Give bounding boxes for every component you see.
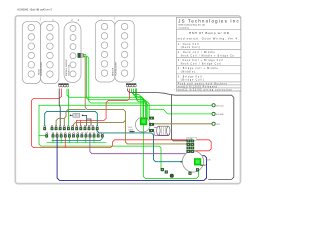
- ground lug A: [161, 168, 164, 171]
- output connector VOL-OD: [212, 104, 215, 107]
- wire green neck hot to switch: [67, 89, 69, 126]
- svg-text:VOL-OD: VOL-OD: [216, 105, 224, 107]
- wire olive middle pickup main run: [83, 56, 187, 144]
- title block note row: [176, 82, 241, 85]
- pickup: middle single coil body: [64, 22, 81, 83]
- wire black neck: [59, 89, 60, 126]
- svg-text:500K: 500K: [206, 159, 211, 161]
- svg-text:5: Bridge Full: 5: Bridge Full: [178, 75, 202, 78]
- output connector OUT: [212, 122, 215, 125]
- svg-text:1: Neck Full: 1: Neck Full: [178, 44, 199, 46]
- wire green bridge 3: [136, 89, 147, 119]
- wire green bridge 1: [132, 89, 141, 119]
- wire red neck hot: [31, 89, 211, 151]
- wire navy switch to output jack loop: [57, 138, 206, 181]
- svg-text:HSH50#2 - Bob HB no#3 ver 3: HSH50#2 - Bob HB no#3 ver 3: [17, 8, 52, 12]
- switch position row 2: [176, 50, 241, 58]
- svg-text:mod11 9/20/05 wiring correctio: mod11 9/20/05 wiring correction: [178, 89, 233, 92]
- wire olive volume wiper to OUT connector: [154, 123, 212, 125]
- svg-text:5930 Goddard Wey Ste 102: 5930 Goddard Wey Ste 102: [178, 24, 206, 27]
- svg-text:Neck Coil / Middle + Bridge Co: Neck Coil / Middle + Bridge Co: [181, 54, 235, 57]
- title block revision row 1: [176, 85, 241, 88]
- wire black branch down to tone lug: [171, 95, 186, 141]
- wire green main bus to VOL-OD output: [39, 104, 212, 106]
- wire green bridge 4: [137, 89, 150, 118]
- column tick 4: [114, 16, 116, 20]
- potentiometer TONE: [182, 151, 203, 172]
- switch position row 5: [176, 74, 241, 82]
- wire green left ground loop: [39, 105, 161, 168]
- svg-text:(Bridge Coil): (Bridge Coil): [181, 79, 204, 82]
- wire green bridge 2: [134, 89, 144, 119]
- wire green loop branch to switch lug: [39, 135, 47, 137]
- wire green middle 1: [83, 54, 146, 118]
- wire red switch lug to hot bus: [64, 138, 66, 148]
- ground lug on tone casing: [189, 172, 192, 175]
- middle pickup connector: [78, 53, 83, 57]
- output connector VOL-HB: [212, 112, 215, 115]
- wire black resistor jumper 2: [87, 119, 91, 126]
- svg-text:NECK: NECK: [38, 68, 40, 75]
- title block outer box: [176, 17, 241, 91]
- ground lug B: [165, 171, 168, 174]
- column tick 1: [40, 17, 42, 21]
- volume pot lug 2: [149, 123, 154, 126]
- svg-text:VOL-HB: VOL-HB: [216, 114, 224, 116]
- teal tone pot terminal dot: [180, 161, 182, 163]
- switch position row 1: [176, 41, 241, 49]
- middle single coil pole pieces: [70, 25, 76, 77]
- page background: [0, 0, 255, 197]
- wire black resistor to switch lugs: [83, 115, 87, 126]
- svg-text:500K: 500K: [128, 129, 133, 131]
- wire green middle 2: [83, 57, 148, 119]
- svg-text:BRIDGE: BRIDGE: [113, 67, 115, 76]
- svg-text:3: Neck Full + Bridge Full: 3: Neck Full + Bridge Full: [178, 59, 223, 62]
- svg-text:4: Bridge coil + Middle: 4: Bridge coil + Middle: [178, 67, 219, 70]
- 5-way switch bottom lug row: [45, 133, 103, 138]
- wire teal switch to tone pot: [97, 130, 180, 162]
- ground lug C: [170, 174, 173, 177]
- border frame: [15, 16, 240, 184]
- tone lug label box: [187, 137, 197, 140]
- wire purple switch to tone lug: [90, 138, 187, 154]
- svg-text:(Middle): (Middle): [181, 72, 195, 74]
- svg-text:Created by: Created by: [178, 26, 190, 29]
- wire black bridge to right side loop: [128, 89, 234, 180]
- wire green switch bottom ground jumpers: [47, 138, 106, 143]
- 5-way switch top lug row: [43, 125, 98, 130]
- wire red bridge hot branch: [80, 120, 82, 126]
- wire red bridge hot: [77, 89, 130, 126]
- capacitor C1 body: [157, 126, 170, 135]
- bridge humbucker pole pieces: [101, 23, 128, 76]
- svg-text:mod switch: Gotm Wiring, Ver 4: mod switch: Gotm Wiring, Ver 4,: [178, 37, 239, 41]
- svg-text:HUMBUCKER: HUMBUCKER: [41, 61, 43, 76]
- svg-text:JS Technologies Inc: JS Technologies Inc: [178, 18, 239, 23]
- svg-text:(Neck Coil): (Neck Coil): [181, 47, 200, 49]
- pickup: neck humbucker body: [22, 21, 59, 83]
- volume pot lug 1: [149, 117, 154, 120]
- neck humbucker pole pieces: [28, 24, 53, 77]
- bridge pickup connector: [126, 83, 136, 87]
- wire olive branch drop: [63, 119, 65, 126]
- switch position row 3: [176, 58, 241, 66]
- title block revision row 2: [176, 88, 241, 91]
- wire olive branch left to switch: [56, 109, 85, 126]
- wire green volume pot to VOL output: [150, 109, 212, 114]
- capacitor C1 (treble bleed) leads: [154, 127, 170, 135]
- svg-text:HUMBUCKER: HUMBUCKER: [115, 61, 117, 76]
- svg-text:JACK: JACK: [200, 164, 206, 167]
- neck pickup connector: [58, 83, 68, 87]
- tone pot lug column: [187, 140, 194, 153]
- potentiometer VOLUME: [135, 117, 150, 132]
- svg-text:TRUE COIL: TRUE COIL: [69, 64, 71, 76]
- svg-text:HSH #7 Bump w/ OD: HSH #7 Bump w/ OD: [189, 31, 230, 35]
- wire teal switch arch jumper: [45, 111, 98, 126]
- svg-text:2: Neck coil / Middle: 2: Neck coil / Middle: [178, 52, 216, 54]
- svg-text:Neck Coil / Bridge Coil: Neck Coil / Bridge Coil: [181, 62, 221, 65]
- wire green volume pot casing drop to ground bus: [143, 122, 198, 179]
- svg-text:OUT: OUT: [216, 124, 221, 126]
- wire olive switch lug row branch: [74, 120, 126, 126]
- resistor R1 on switch: [70, 114, 83, 118]
- switch position row 4: [176, 66, 241, 74]
- ground lug D: [196, 168, 199, 171]
- title block divider: [176, 29, 241, 31]
- volume pot lug 3: [149, 129, 154, 132]
- wire teal switch bottom branch: [52, 138, 102, 141]
- pickup: bridge humbucker body: [95, 20, 134, 82]
- wire green neck ground bus: [67, 89, 143, 119]
- svg-text:MIDDLE SINGLE: MIDDLE SINGLE: [66, 59, 68, 76]
